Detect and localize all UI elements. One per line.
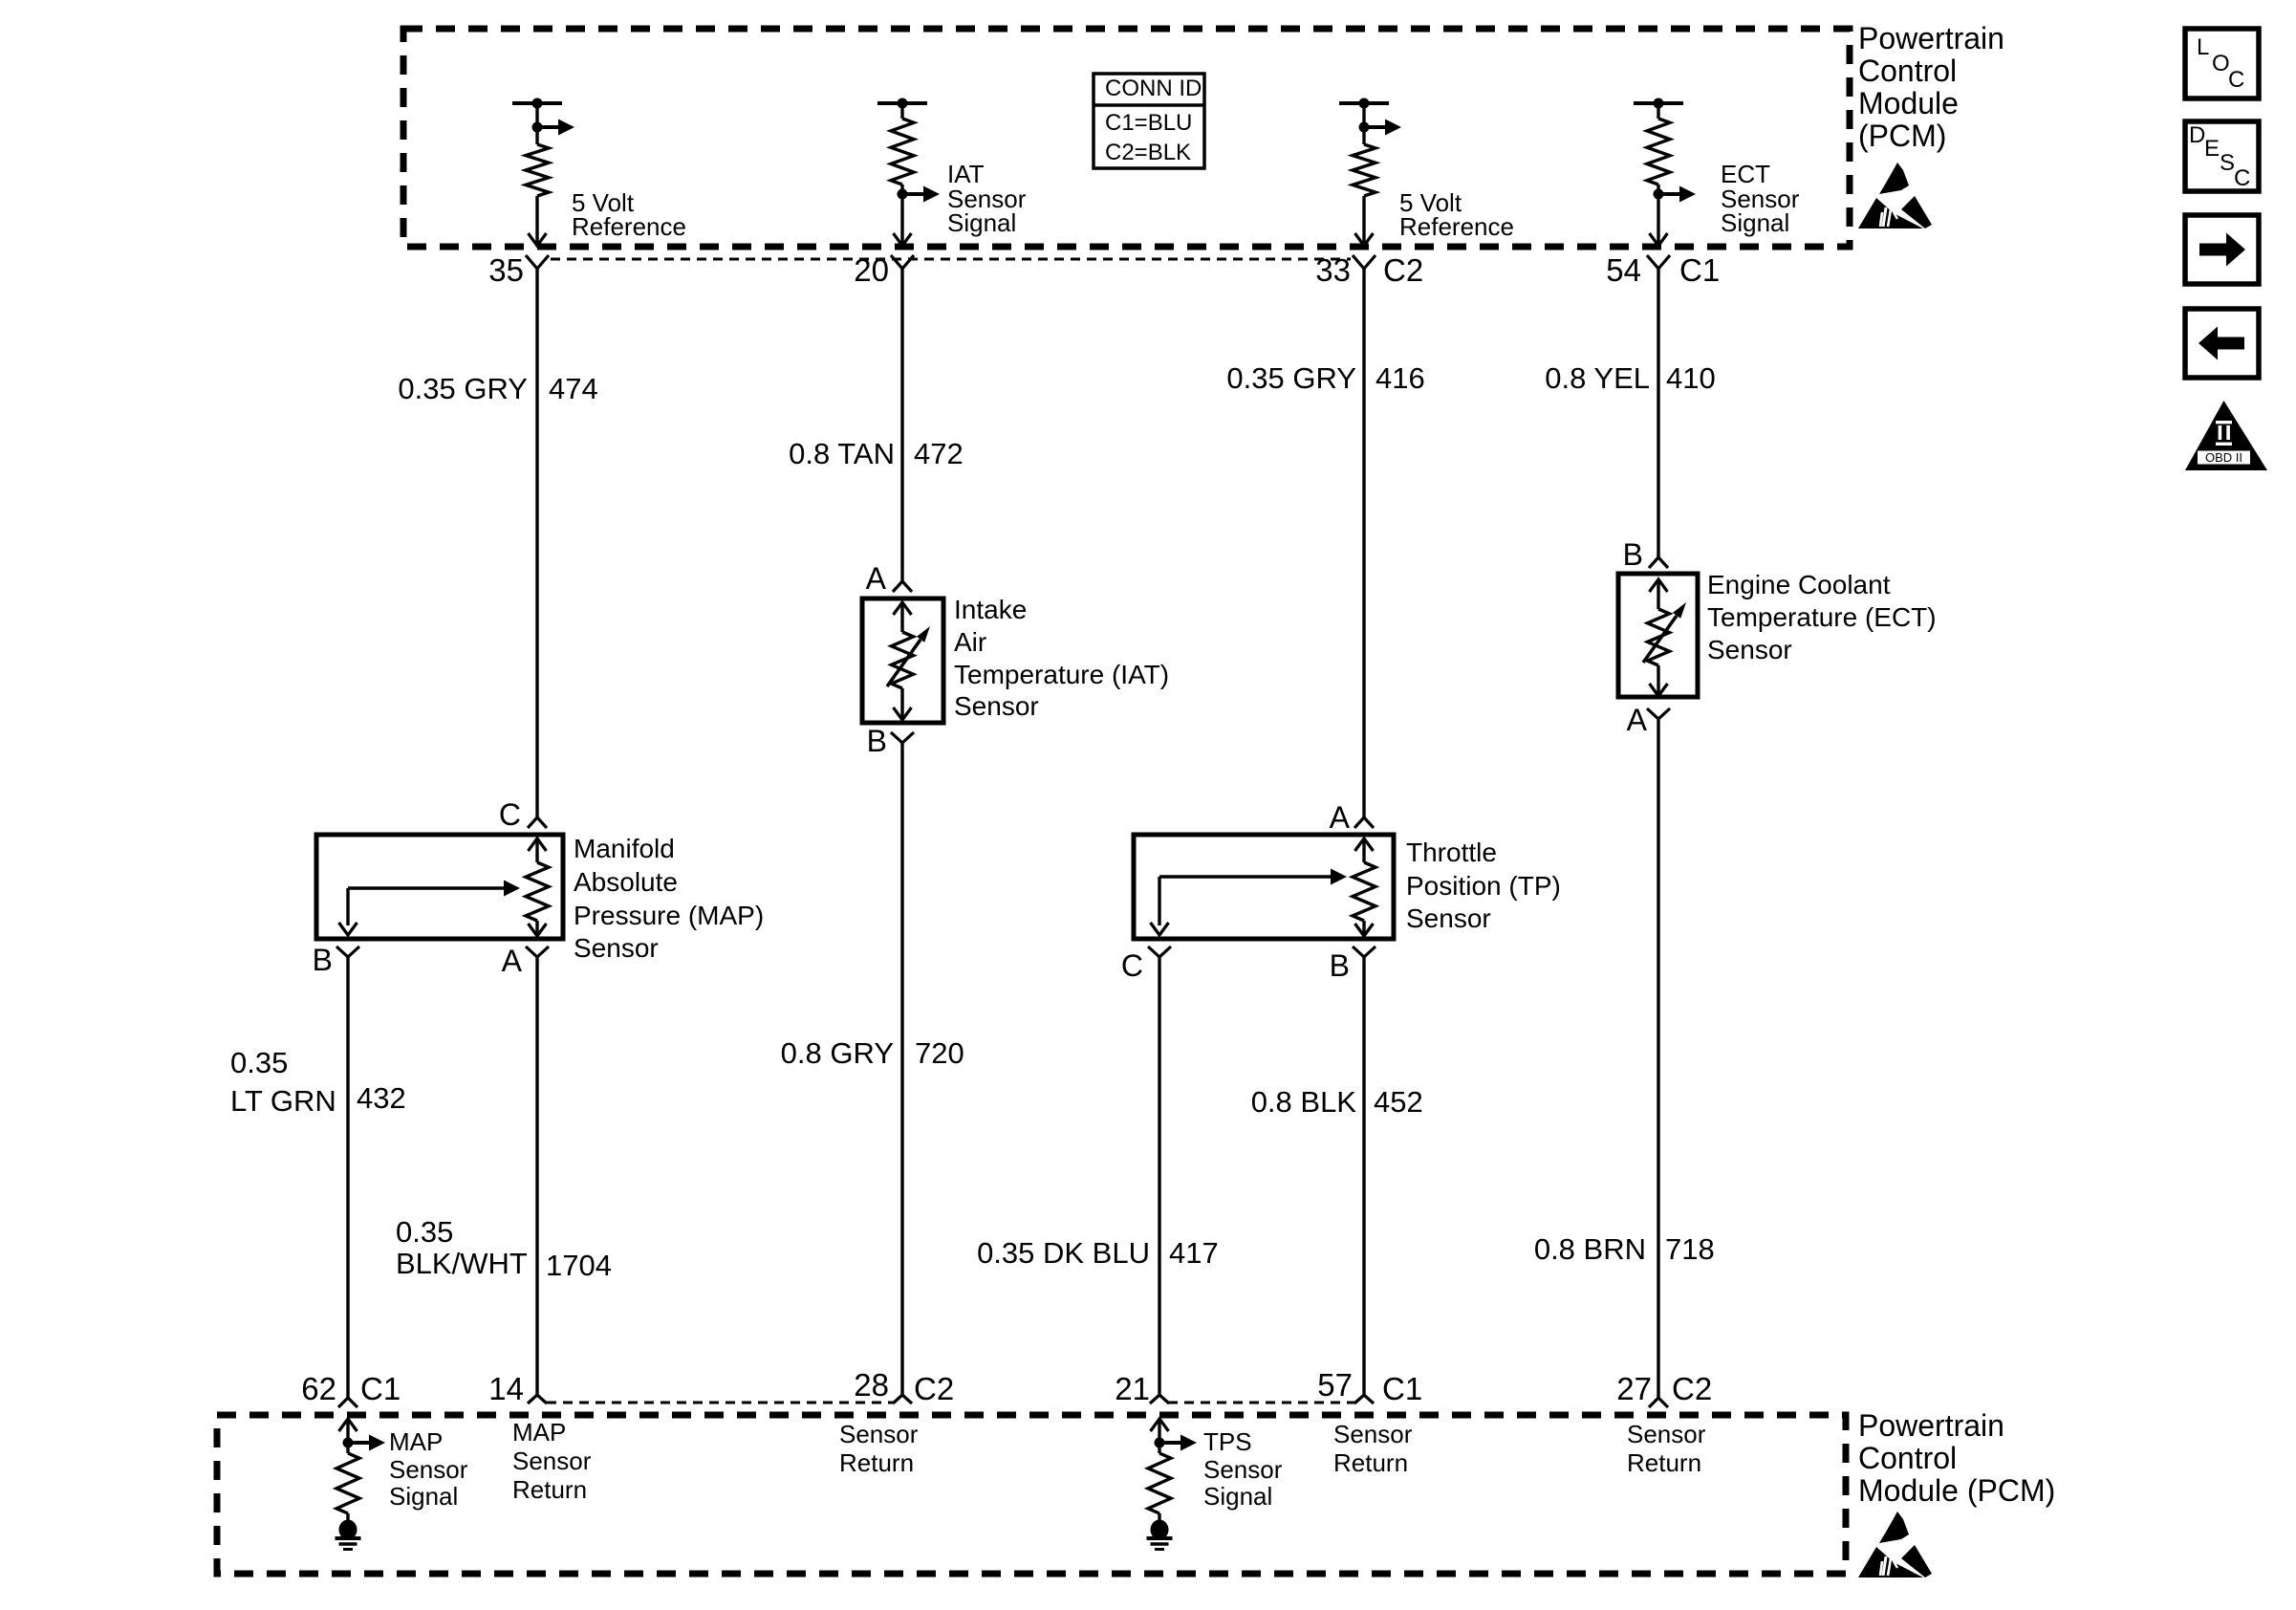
svg-text:452: 452 [1374, 1085, 1423, 1119]
IAT sensor box [862, 598, 943, 723]
PCM label (bottom right) [1858, 1408, 2055, 1508]
connector line C1 (bottom, 21 to 57, thin dashed) [1168, 1402, 1355, 1404]
svg-text:C2: C2 [1672, 1371, 1712, 1406]
connector B at TP [1353, 946, 1375, 957]
connector A at ECT [1647, 708, 1670, 719]
LOC icon [2185, 29, 2259, 98]
svg-text:A: A [1627, 703, 1648, 737]
wire 720 (IAT B to pin 28) [900, 743, 903, 1395]
svg-text:Temperature (IAT): Temperature (IAT) [954, 660, 1169, 689]
svg-text:28: 28 [854, 1367, 889, 1403]
svg-text:0.8 YEL: 0.8 YEL [1545, 361, 1650, 395]
connector A at IAT [893, 581, 912, 592]
svg-text:474: 474 [549, 372, 598, 405]
svg-text:Sensor: Sensor [1707, 635, 1792, 664]
svg-text:Throttle: Throttle [1406, 838, 1497, 867]
svg-text:B: B [867, 724, 887, 758]
connector pin 21 [1150, 1395, 1169, 1403]
svg-text:Reference: Reference [572, 212, 686, 241]
svg-text:Sensor: Sensor [839, 1420, 919, 1448]
svg-text:Intake: Intake [954, 595, 1027, 624]
svg-text:0.35: 0.35 [230, 1046, 288, 1079]
svg-text:C2: C2 [1383, 252, 1423, 288]
resistor + ECT sensor signal leg, PCM pin 54 [1634, 101, 1683, 105]
svg-text:Signal: Signal [389, 1482, 458, 1511]
connector pin 33 (C2) [1353, 255, 1375, 269]
connector pin 35 [526, 255, 549, 269]
potentiometer inside MAP sensor [526, 838, 549, 936]
svg-text:33: 33 [1315, 252, 1351, 288]
svg-text:Pressure (MAP): Pressure (MAP) [574, 901, 764, 930]
svg-text:0.8 BLK: 0.8 BLK [1251, 1085, 1357, 1119]
svg-text:Return: Return [512, 1475, 587, 1504]
svg-text:Sensor: Sensor [1406, 903, 1491, 933]
svg-text:Absolute: Absolute [574, 867, 678, 897]
ESD-sensitive symbol (bottom) [1858, 1512, 1932, 1577]
potentiometer inside TP sensor [1353, 838, 1375, 936]
svg-text:Engine Coolant: Engine Coolant [1707, 570, 1891, 599]
wire 410 (pin54 to ECT B) [1657, 269, 1659, 557]
svg-text:C: C [499, 797, 521, 832]
svg-text:D: D [2189, 122, 2205, 148]
svg-text:410: 410 [1666, 361, 1716, 395]
svg-text:Module (PCM): Module (PCM) [1858, 1473, 2055, 1508]
svg-text:0.35 GRY: 0.35 GRY [1226, 361, 1356, 395]
wire 718 (ECT A to pin 27) [1657, 719, 1659, 1398]
svg-text:Sensor: Sensor [389, 1455, 468, 1484]
svg-text:Control: Control [1858, 1441, 1957, 1475]
svg-text:(PCM): (PCM) [1858, 119, 1946, 153]
svg-text:C1: C1 [1382, 1371, 1422, 1406]
ESD-sensitive symbol (top) [1858, 163, 1932, 228]
svg-text:Return: Return [1627, 1448, 1701, 1477]
wire 1704 (MAP A to pin 14) [535, 957, 538, 1395]
svg-text:Return: Return [1333, 1448, 1408, 1477]
svg-text:Manifold: Manifold [574, 834, 675, 863]
connector A at TP [1354, 817, 1374, 828]
svg-text:0.35 DK BLU: 0.35 DK BLU [977, 1236, 1150, 1270]
MAP wiper arrow [339, 881, 521, 936]
back arrow icon [2185, 309, 2259, 378]
ECT sensor box [1618, 574, 1698, 697]
svg-text:LT GRN: LT GRN [230, 1084, 336, 1118]
connector pin 27 (C2) [1649, 1398, 1668, 1407]
svg-text:Powertrain: Powertrain [1858, 21, 2004, 55]
connector pin 54 (C1) [1647, 255, 1670, 269]
DESC icon [2185, 121, 2259, 191]
svg-text:Signal: Signal [1203, 1482, 1272, 1511]
svg-text:C1=BLU: C1=BLU [1105, 110, 1192, 136]
wire 416 (pin33 to TP A) [1362, 269, 1365, 817]
svg-text:Sensor: Sensor [1627, 1420, 1706, 1448]
svg-text:B: B [1623, 537, 1643, 572]
OBD II icon [2185, 401, 2267, 470]
connector pin 62 (C1) [338, 1398, 357, 1407]
svg-text:A: A [866, 561, 887, 596]
svg-text:C1: C1 [1679, 252, 1720, 288]
svg-text:B: B [313, 943, 333, 977]
wire 472 (pin20 to IAT A) [900, 269, 903, 581]
svg-text:A: A [1330, 800, 1351, 835]
svg-text:1704: 1704 [546, 1249, 612, 1282]
svg-text:0.8 BRN: 0.8 BRN [1534, 1232, 1646, 1266]
connector line C2 (bottom, 14 to 28, thin dashed) [547, 1402, 893, 1404]
connector C at MAP [528, 817, 547, 828]
svg-text:472: 472 [914, 437, 964, 470]
connector line C2 (top, thin dashed) [551, 258, 1351, 261]
connector C at TP [1148, 946, 1171, 957]
svg-text:TPS: TPS [1203, 1427, 1252, 1456]
PCM module box (top, dashed) [403, 29, 1850, 247]
PCM module box (bottom, dashed) [217, 1415, 1846, 1574]
svg-text:416: 416 [1375, 361, 1425, 395]
svg-text:Signal: Signal [947, 208, 1016, 237]
svg-text:54: 54 [1606, 252, 1641, 288]
svg-text:O: O [2212, 51, 2230, 76]
svg-text:E: E [2204, 136, 2220, 162]
svg-text:Sensor: Sensor [1333, 1420, 1413, 1448]
svg-text:0.35: 0.35 [396, 1215, 453, 1249]
MAP sensor box [316, 835, 563, 939]
wire 452 (TP B to pin 57) [1362, 957, 1365, 1395]
connector A at MAP [526, 946, 549, 957]
svg-text:C2: C2 [914, 1371, 954, 1406]
svg-text:CONN ID: CONN ID [1105, 76, 1202, 101]
svg-text:62: 62 [301, 1371, 336, 1406]
svg-text:C: C [2234, 165, 2250, 191]
svg-text:20: 20 [854, 252, 889, 288]
svg-text:Sensor: Sensor [574, 933, 659, 963]
forward arrow icon [2185, 215, 2259, 284]
connector pin 28 (C2) [893, 1395, 912, 1403]
svg-text:417: 417 [1169, 1236, 1219, 1270]
TP wiper arrow [1151, 869, 1348, 936]
svg-text:OBD II: OBD II [2205, 450, 2242, 465]
CONN ID legend box [1094, 74, 1204, 168]
connector B at ECT [1649, 557, 1668, 568]
svg-text:Control: Control [1858, 54, 1957, 88]
svg-text:Module: Module [1858, 86, 1959, 120]
svg-text:S: S [2220, 150, 2235, 176]
svg-text:432: 432 [357, 1081, 406, 1115]
svg-text:A: A [502, 944, 523, 978]
wire 432 (MAP B to pin 62) [346, 957, 349, 1398]
connector B at IAT [891, 732, 914, 743]
svg-text:35: 35 [488, 252, 524, 288]
connector pin 14 [528, 1395, 547, 1403]
svg-text:Air: Air [954, 627, 986, 657]
svg-text:B: B [1330, 948, 1350, 983]
PCM label (top right) [1858, 21, 2004, 153]
thermistor inside IAT sensor [887, 602, 930, 720]
TPS sensor signal leg + ground (pin 21) [1151, 1419, 1169, 1431]
svg-text:Temperature (ECT): Temperature (ECT) [1707, 602, 1937, 632]
connector pin 20 [891, 255, 914, 269]
svg-text:C: C [1121, 948, 1143, 983]
svg-text:C1: C1 [360, 1371, 401, 1406]
resistor + 5V reference leg, PCM pin 35 [512, 101, 562, 105]
svg-text:Return: Return [839, 1448, 914, 1477]
svg-text:BLK/WHT: BLK/WHT [396, 1247, 528, 1280]
svg-text:L: L [2197, 34, 2209, 60]
svg-text:0.8 GRY: 0.8 GRY [781, 1036, 894, 1070]
TP sensor box [1134, 835, 1394, 939]
wire 417 (TP C to pin 21) [1158, 957, 1160, 1395]
svg-text:Powertrain: Powertrain [1858, 1408, 2004, 1443]
MAP sensor signal leg + ground (pin 62) [339, 1419, 357, 1431]
svg-text:21: 21 [1115, 1371, 1150, 1406]
thermistor inside ECT sensor [1643, 579, 1686, 696]
svg-text:718: 718 [1665, 1232, 1715, 1266]
svg-text:0.35 GRY: 0.35 GRY [398, 372, 528, 405]
svg-text:Signal: Signal [1721, 208, 1789, 237]
svg-text:0.8 TAN: 0.8 TAN [789, 437, 895, 470]
svg-text:27: 27 [1616, 1371, 1652, 1406]
svg-text:MAP: MAP [512, 1418, 566, 1447]
svg-text:Position (TP): Position (TP) [1406, 871, 1561, 901]
resistor + IAT sensor signal leg, PCM pin 20 [877, 101, 927, 105]
svg-text:Sensor: Sensor [954, 691, 1039, 721]
connector B at MAP [336, 946, 359, 957]
svg-text:MAP: MAP [389, 1427, 443, 1456]
svg-text:14: 14 [488, 1371, 524, 1406]
svg-text:C: C [2228, 67, 2244, 93]
svg-text:Reference: Reference [1399, 212, 1514, 241]
svg-text:Sensor: Sensor [1203, 1455, 1283, 1484]
wire 474 (pin35 to MAP C) [535, 269, 538, 817]
svg-text:Sensor: Sensor [512, 1447, 592, 1475]
svg-text:720: 720 [915, 1036, 964, 1070]
resistor + 5V reference leg, PCM pin 33 [1339, 101, 1389, 105]
svg-text:C2=BLK: C2=BLK [1105, 140, 1191, 165]
svg-text:57: 57 [1317, 1367, 1353, 1403]
connector pin 57 (C1) [1354, 1395, 1374, 1403]
